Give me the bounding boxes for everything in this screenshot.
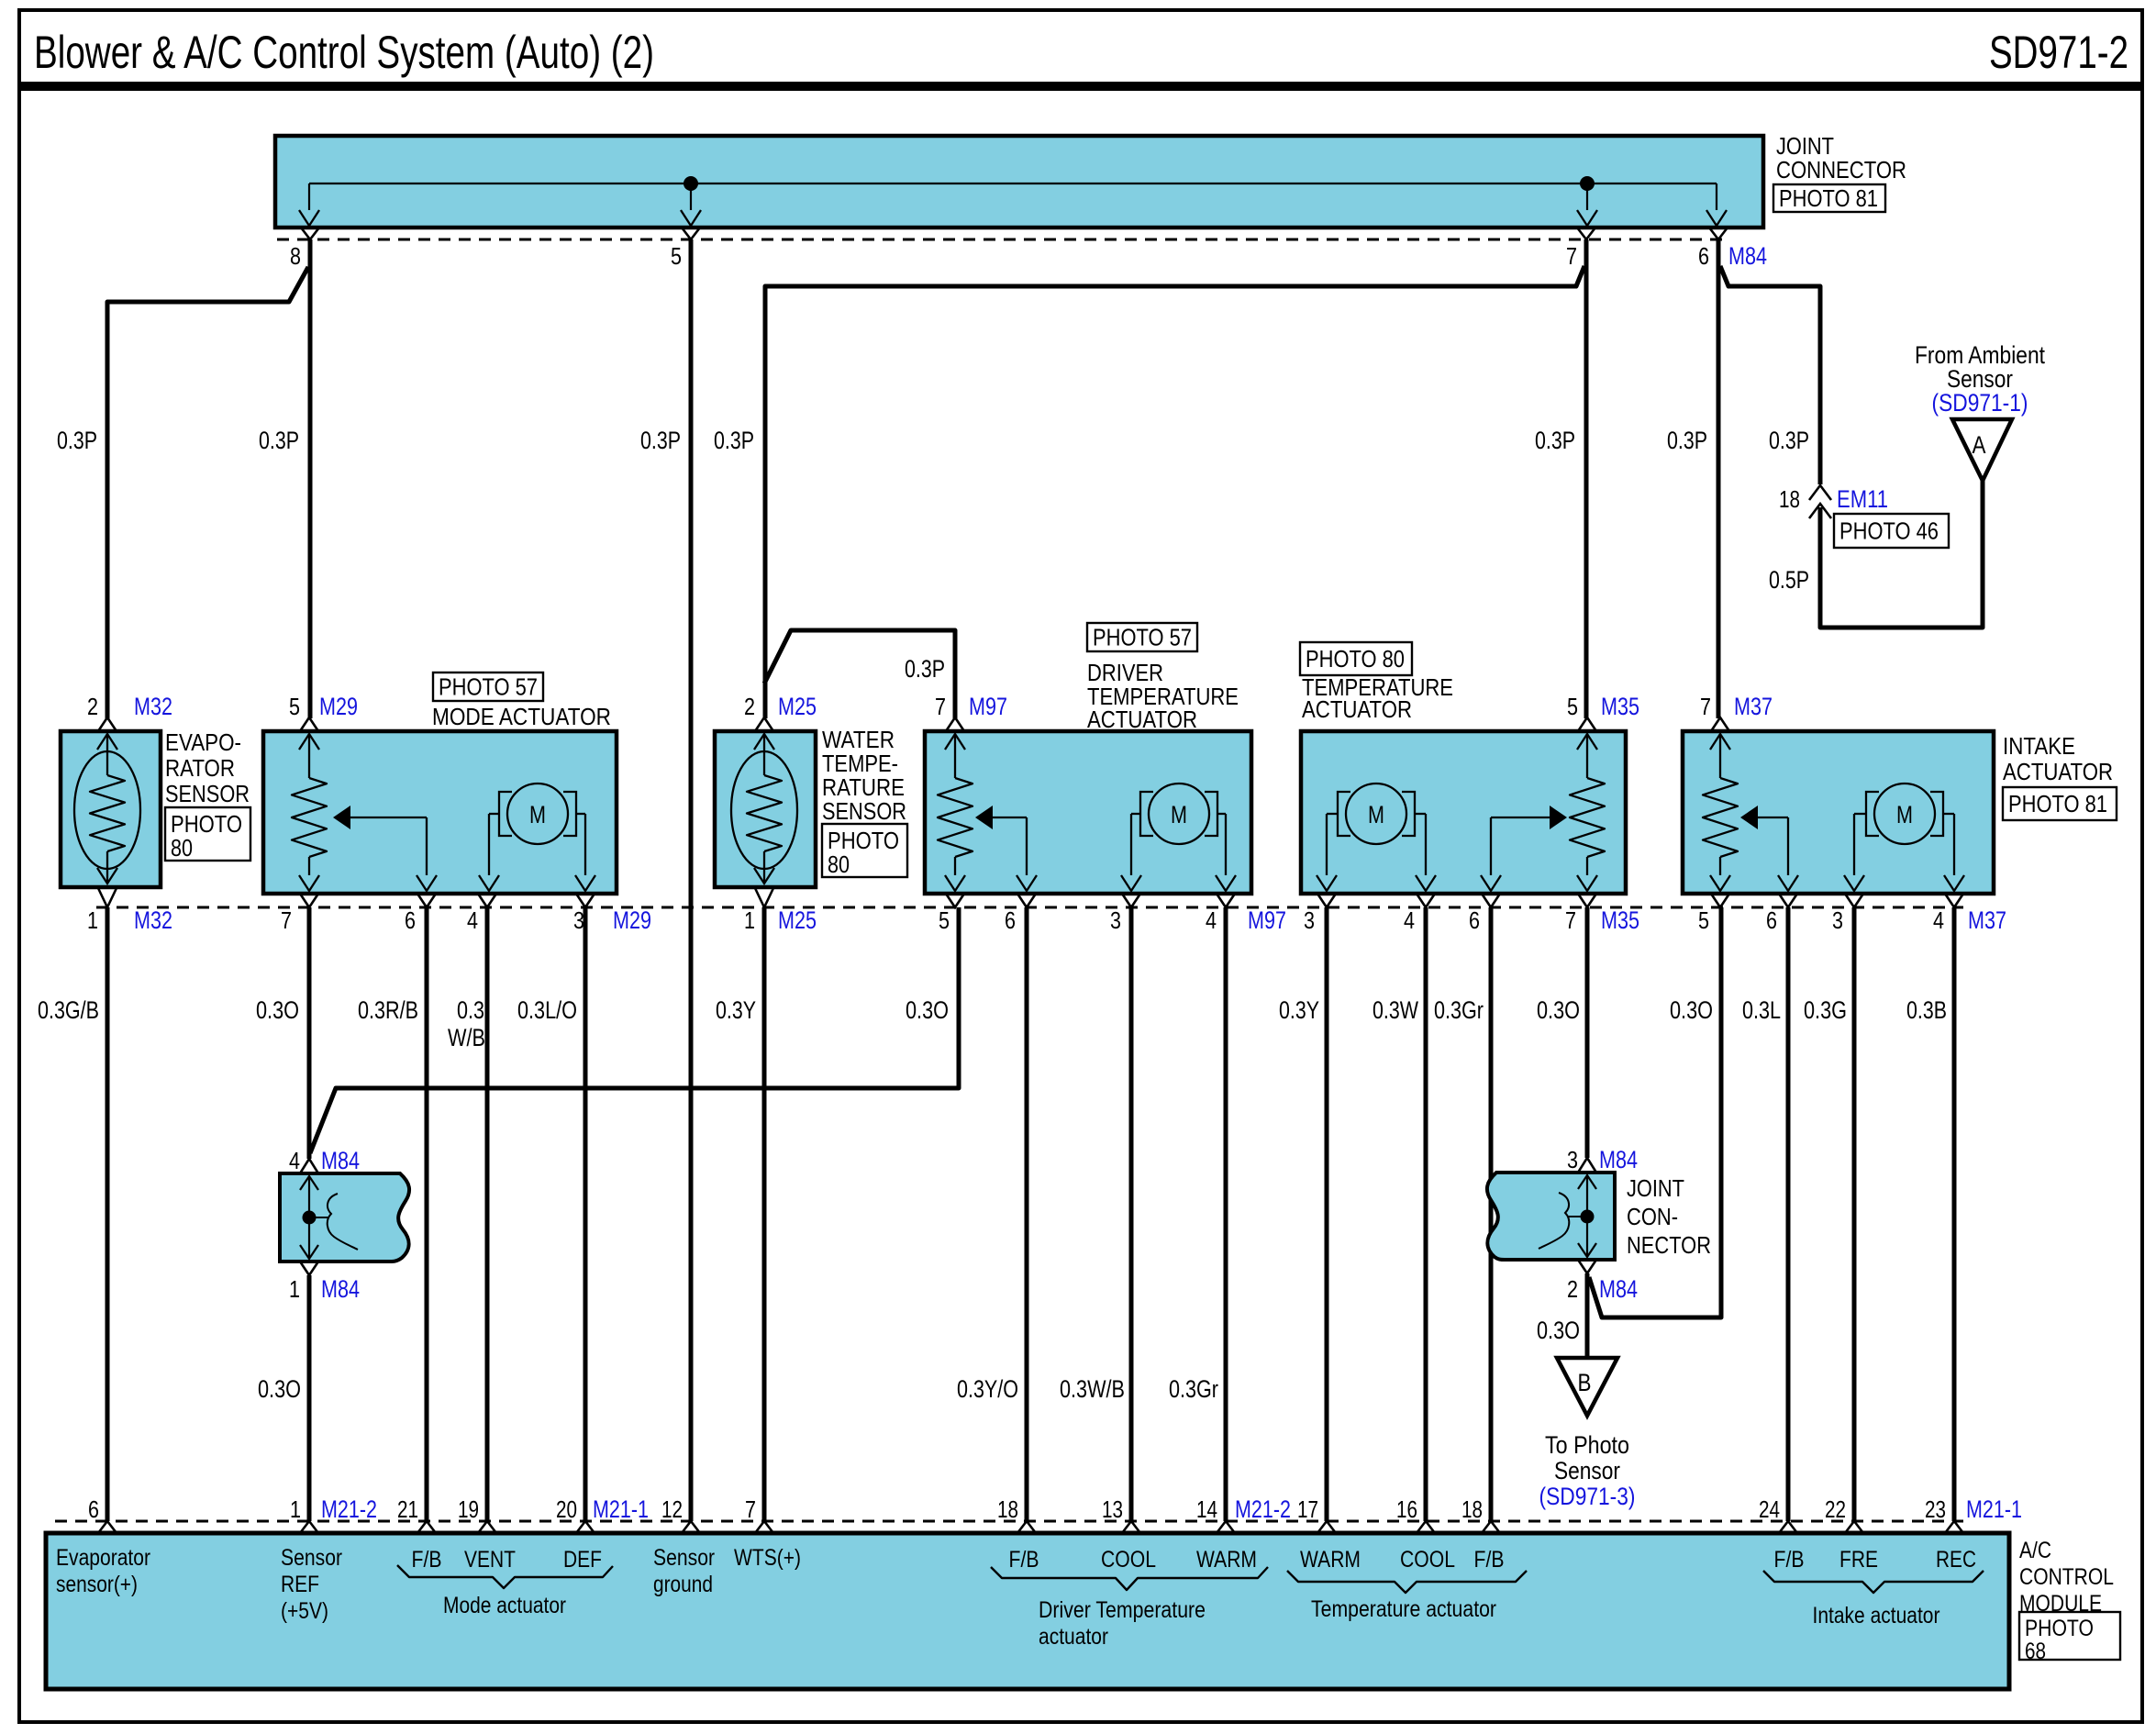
temperature actuator wiper arrow xyxy=(1550,806,1567,829)
module pin 14 chevron at x=1336 xyxy=(1217,1521,1235,1533)
svg-text:0.3G: 0.3G xyxy=(1804,996,1847,1024)
svg-text:M: M xyxy=(1368,801,1384,828)
svg-text:16: 16 xyxy=(1396,1495,1417,1523)
label PHOTO 80 (water temperature sensor) xyxy=(822,824,907,877)
svg-text:6: 6 xyxy=(88,1495,99,1523)
svg-text:0.3P: 0.3P xyxy=(1769,427,1809,454)
svg-text:Sensor: Sensor xyxy=(1554,1457,1620,1484)
svg-text:COOL: COOL xyxy=(1101,1547,1156,1573)
svg-text:5: 5 xyxy=(671,242,682,270)
temperature actuator motor M xyxy=(1346,784,1406,844)
svg-text:M32: M32 xyxy=(134,906,172,934)
svg-text:M29: M29 xyxy=(319,693,358,720)
joint connector M84 (top) box xyxy=(275,136,1763,228)
svg-text:18: 18 xyxy=(997,1495,1018,1523)
svg-text:WARM: WARM xyxy=(1196,1547,1257,1573)
wire 0.3P from pin 6 to intake actuator pin 7 xyxy=(1717,239,1721,718)
svg-text:M32: M32 xyxy=(134,693,172,720)
svg-text:F/B: F/B xyxy=(1474,1547,1505,1573)
driver temperature actuator group brace xyxy=(991,1567,1268,1590)
svg-text:3: 3 xyxy=(1304,906,1315,934)
svg-text:actuator: actuator xyxy=(1039,1624,1108,1650)
svg-text:7: 7 xyxy=(281,906,292,934)
mode actuator bottom pin chevrons 7 6 4 3 xyxy=(300,894,318,907)
wire 0.3O joint connector M84 pin 2 to photo sensor connector B xyxy=(1585,1273,1590,1358)
svg-text:Evaporator: Evaporator xyxy=(56,1545,150,1571)
intake actuator M37 box xyxy=(1683,731,1994,894)
wire 0.3Y water temperature sensor pin 1 to module pin 7 xyxy=(762,907,767,1521)
module pin 7 chevron at x=833 xyxy=(755,1521,773,1533)
svg-text:20: 20 xyxy=(556,1495,577,1523)
svg-text:CON-: CON- xyxy=(1627,1203,1678,1230)
svg-text:14: 14 xyxy=(1196,1495,1217,1523)
wire 0.3O mode actuator pin 7 to joint connector M84 pin 4 xyxy=(307,907,312,1159)
svg-text:ACTUATOR: ACTUATOR xyxy=(1087,706,1197,733)
label PHOTO 81 (intake actuator) xyxy=(2003,787,2117,820)
svg-text:0.3P: 0.3P xyxy=(57,427,97,454)
intake actuator position resistor xyxy=(1710,734,1730,750)
svg-text:0.3: 0.3 xyxy=(457,996,484,1024)
svg-text:0.3O: 0.3O xyxy=(1537,996,1580,1024)
svg-text:1: 1 xyxy=(87,906,98,934)
svg-text:B: B xyxy=(1578,1369,1592,1396)
module pin 20 chevron at x=638 xyxy=(576,1521,595,1533)
pin 6 of joint connector M84 xyxy=(1709,228,1728,239)
wire 0.3Y temperature actuator pin 3 to module pin 17 xyxy=(1325,907,1329,1521)
svg-text:0.3W/B: 0.3W/B xyxy=(1060,1375,1125,1403)
joint connector M84 (left) pin 4 chevron xyxy=(300,1159,318,1173)
svg-text:7: 7 xyxy=(1700,693,1711,720)
svg-text:(SD971-1): (SD971-1) xyxy=(1932,389,2028,417)
wire 0.3Y/O driver temperature actuator pin 6 to module pin 18 xyxy=(1025,907,1029,1521)
svg-text:7: 7 xyxy=(935,693,946,720)
svg-text:SENSOR: SENSOR xyxy=(822,797,906,825)
svg-text:M: M xyxy=(1896,801,1913,828)
svg-text:0.3B: 0.3B xyxy=(1906,996,1947,1024)
svg-text:PHOTO 57: PHOTO 57 xyxy=(439,673,538,701)
svg-text:SENSOR: SENSOR xyxy=(165,780,250,807)
svg-text:18: 18 xyxy=(1461,1495,1483,1523)
wire 0.5P from EM11 to ambient sensor connector A xyxy=(1820,481,1983,628)
svg-text:0.3P: 0.3P xyxy=(905,655,945,683)
label PHOTO 57 (mode actuator) xyxy=(433,672,543,701)
module pin 16 chevron at x=1554 xyxy=(1417,1521,1435,1533)
module pin 23 chevron at x=2130 xyxy=(1945,1521,1963,1533)
wire 0.3Gr driver temperature actuator pin 4 to module pin 14 xyxy=(1224,907,1228,1521)
svg-text:CONNECTOR: CONNECTOR xyxy=(1776,156,1906,183)
svg-text:PHOTO 81: PHOTO 81 xyxy=(2008,790,2107,817)
junction dot on bus at pin 7 xyxy=(1580,176,1595,191)
svg-text:4: 4 xyxy=(467,906,478,934)
svg-text:M37: M37 xyxy=(1968,906,2006,934)
wire 0.3W/B driver temperature actuator pin 3 to module pin 13 xyxy=(1129,907,1134,1521)
svg-text:M29: M29 xyxy=(613,906,651,934)
wire 0.3L intake actuator pin 6 to module pin 24 xyxy=(1786,907,1791,1521)
joint connector internal bus wire xyxy=(309,183,1717,184)
wire 0.3O joint connector M84 pin 2 branch to intake actuator pin 5 xyxy=(1589,907,1721,1317)
svg-text:1: 1 xyxy=(290,1495,301,1523)
intake actuator pin 7 chevron xyxy=(1711,717,1729,731)
svg-text:3: 3 xyxy=(1832,906,1843,934)
temperature actuator M35 box xyxy=(1301,731,1626,894)
svg-text:M35: M35 xyxy=(1601,906,1639,934)
svg-text:M97: M97 xyxy=(1248,906,1286,934)
svg-text:0.3G/B: 0.3G/B xyxy=(38,996,99,1024)
svg-text:6: 6 xyxy=(1469,906,1480,934)
svg-text:M37: M37 xyxy=(1734,693,1773,720)
module dashed connector line xyxy=(55,1520,1963,1523)
svg-text:FRE: FRE xyxy=(1839,1547,1878,1573)
svg-text:RATOR: RATOR xyxy=(165,754,235,782)
module pin 21 chevron at x=465 xyxy=(417,1521,436,1533)
svg-text:Driver Temperature: Driver Temperature xyxy=(1039,1597,1206,1623)
wire 0.3P branch from pin 7 to water temperature sensor pin 2 xyxy=(765,266,1584,718)
intake actuator motor M xyxy=(1874,784,1935,844)
svg-text:Sensor: Sensor xyxy=(281,1545,342,1571)
mode actuator group brace xyxy=(397,1565,613,1588)
svg-text:F/B: F/B xyxy=(1774,1547,1805,1573)
svg-text:ACTUATOR: ACTUATOR xyxy=(1302,695,1412,723)
evaporator sensor thermistor symbol xyxy=(74,751,140,869)
wire 0.3W temperature actuator pin 4 to module pin 16 xyxy=(1424,907,1428,1521)
module pin 17 chevron at x=1446 xyxy=(1317,1521,1336,1533)
svg-text:2: 2 xyxy=(1567,1275,1578,1303)
component row dashed connector line xyxy=(96,906,1963,909)
svg-text:M25: M25 xyxy=(778,906,817,934)
joint connector M84 (left) pin 1 chevron xyxy=(300,1262,318,1275)
svg-text:ground: ground xyxy=(653,1572,713,1597)
wire 0.3R/B mode actuator pin 6 to module pin 21 xyxy=(425,907,429,1521)
svg-text:0.3O: 0.3O xyxy=(256,996,299,1024)
svg-text:M: M xyxy=(1171,801,1187,828)
A/C control module box xyxy=(46,1533,2009,1689)
svg-text:68: 68 xyxy=(2025,1639,2046,1664)
svg-text:0.3P: 0.3P xyxy=(259,427,299,454)
evaporator sensor M32 box xyxy=(61,731,161,887)
joint connector M84 (right) pin 3 chevron xyxy=(1578,1158,1596,1173)
svg-text:M84: M84 xyxy=(321,1275,360,1303)
svg-text:M35: M35 xyxy=(1601,693,1639,720)
off-page connector A - From Ambient Sensor (SD971-1) xyxy=(1952,419,2012,481)
svg-text:0.5P: 0.5P xyxy=(1769,566,1809,594)
svg-text:0.3Y: 0.3Y xyxy=(1279,996,1319,1024)
svg-text:0.3P: 0.3P xyxy=(714,427,754,454)
svg-text:M25: M25 xyxy=(778,693,817,720)
svg-text:0.3P: 0.3P xyxy=(640,427,681,454)
svg-text:INTAKE: INTAKE xyxy=(2003,732,2075,760)
svg-text:6: 6 xyxy=(1766,906,1777,934)
wire 0.3G/B evaporator sensor pin 1 to module pin 6 xyxy=(106,907,110,1521)
svg-text:MODE ACTUATOR: MODE ACTUATOR xyxy=(432,703,611,730)
wire 0.3O joint connector M84 pin 1 to module pin 1 xyxy=(307,1275,312,1521)
module pin 13 chevron at x=1233 xyxy=(1122,1521,1140,1533)
wire 0.3P from pin 7 to temperature actuator pin 5 xyxy=(1584,239,1589,718)
label PHOTO 80 (evaporator sensor) xyxy=(165,807,250,861)
svg-text:5: 5 xyxy=(1567,693,1578,720)
wire 0.3P from water temperature sensor pin 2 to driver temperature actuator pin 7 xyxy=(764,630,955,718)
svg-text:80: 80 xyxy=(171,834,193,861)
svg-text:PHOTO 57: PHOTO 57 xyxy=(1093,624,1192,651)
svg-text:EM11: EM11 xyxy=(1837,485,1888,513)
svg-text:22: 22 xyxy=(1825,1495,1846,1523)
mode actuator motor M xyxy=(507,784,568,844)
svg-text:(SD971-3): (SD971-3) xyxy=(1539,1483,1636,1510)
wire 0.3W/B mode actuator pin 4 to module pin 19 xyxy=(485,907,490,1521)
svg-text:ACTUATOR: ACTUATOR xyxy=(2003,758,2113,785)
svg-text:M84: M84 xyxy=(1599,1146,1638,1173)
temperature actuator bottom pin chevrons 3 4 6 7 xyxy=(1317,894,1336,907)
pin 7 of joint connector M84 xyxy=(1577,228,1595,239)
svg-text:2: 2 xyxy=(744,693,755,720)
mode actuator pin 5 chevron xyxy=(300,717,318,731)
svg-text:0.3R/B: 0.3R/B xyxy=(358,996,418,1024)
in-line connector EM11 pin 18 xyxy=(1809,485,1831,500)
off-page connector B - To Photo Sensor (SD971-3) xyxy=(1557,1358,1617,1416)
svg-text:6: 6 xyxy=(1698,242,1709,270)
svg-text:7: 7 xyxy=(1565,906,1576,934)
driver temperature actuator M97 box xyxy=(925,731,1251,894)
wire 0.3P branch from pin 8 wire to evaporator sensor pin 2 xyxy=(107,267,308,718)
connector dashed line below joint connector M84 xyxy=(277,239,1727,241)
svg-text:REC: REC xyxy=(1936,1547,1976,1573)
module pin 19 chevron at x=531 xyxy=(478,1521,496,1533)
svg-text:Blower & A/C Control System (A: Blower & A/C Control System (Auto) (2) xyxy=(34,27,654,78)
svg-text:0.3Gr: 0.3Gr xyxy=(1434,996,1484,1024)
wire 0.3O temperature actuator pin 7 to joint connector M84 pin 3 xyxy=(1585,907,1590,1158)
svg-text:PHOTO: PHOTO xyxy=(2025,1616,2094,1641)
svg-text:7: 7 xyxy=(1566,242,1577,270)
svg-text:0.3O: 0.3O xyxy=(1537,1317,1580,1344)
svg-text:0.3O: 0.3O xyxy=(258,1375,301,1403)
svg-text:18: 18 xyxy=(1779,485,1800,513)
title separator line xyxy=(19,82,2142,91)
joint connector M84 (left) box xyxy=(280,1173,409,1262)
svg-text:(+5V): (+5V) xyxy=(281,1598,328,1624)
intake actuator bottom pin chevrons 5 6 3 4 xyxy=(1711,894,1729,907)
joint connector M84 (right) pin 2 chevron xyxy=(1578,1260,1596,1273)
svg-text:0.3O: 0.3O xyxy=(906,996,949,1024)
module pin 12 chevron at x=753 xyxy=(682,1521,700,1533)
module pin 1 chevron at x=337 xyxy=(300,1521,318,1533)
svg-text:3: 3 xyxy=(573,906,584,934)
water temperature sensor thermistor symbol xyxy=(731,751,797,869)
svg-text:13: 13 xyxy=(1102,1495,1123,1523)
svg-text:WARM: WARM xyxy=(1300,1547,1361,1573)
wire 0.3P from pin 5 to A/C control module pin 12 xyxy=(689,239,694,1521)
svg-text:M21-1: M21-1 xyxy=(593,1495,649,1523)
svg-text:SD971-2: SD971-2 xyxy=(1989,27,2128,78)
svg-text:VENT: VENT xyxy=(464,1547,516,1573)
svg-text:5: 5 xyxy=(289,693,300,720)
svg-text:M84: M84 xyxy=(1599,1275,1638,1303)
svg-text:sensor(+): sensor(+) xyxy=(56,1572,138,1597)
mode actuator M29 box xyxy=(263,731,617,894)
svg-text:8: 8 xyxy=(290,242,301,270)
wire 0.3G intake actuator pin 3 to module pin 22 xyxy=(1852,907,1857,1521)
svg-text:Intake actuator: Intake actuator xyxy=(1813,1603,1940,1628)
pin 8 of joint connector M84 xyxy=(301,228,319,239)
svg-text:5: 5 xyxy=(939,906,950,934)
pin 5 of joint connector M84 xyxy=(682,228,700,239)
svg-text:0.3P: 0.3P xyxy=(1535,427,1575,454)
water temperature sensor pin 2 chevron xyxy=(755,717,773,731)
wire 0.3L/O mode actuator pin 3 to module pin 20 xyxy=(583,907,588,1521)
joint connector M84 (right) box xyxy=(1487,1173,1615,1260)
mode actuator wiper arrow xyxy=(333,806,350,829)
svg-text:M21-2: M21-2 xyxy=(321,1495,377,1523)
evaporator sensor pin 2 chevron xyxy=(98,717,117,731)
svg-text:WTS(+): WTS(+) xyxy=(734,1545,801,1571)
svg-text:DEF: DEF xyxy=(563,1547,602,1573)
svg-text:23: 23 xyxy=(1925,1495,1946,1523)
svg-text:F/B: F/B xyxy=(412,1547,442,1573)
svg-text:0.3L: 0.3L xyxy=(1742,996,1781,1024)
svg-text:M: M xyxy=(529,801,546,828)
driver temperature actuator bottom pin chevrons 5 6 3 4 xyxy=(946,894,964,907)
svg-text:0.3P: 0.3P xyxy=(1667,427,1707,454)
temperature actuator group brace xyxy=(1287,1571,1527,1593)
svg-text:PHOTO 81: PHOTO 81 xyxy=(1779,184,1878,212)
wire 0.3Gr temperature actuator pin 6 to module pin 18 xyxy=(1489,907,1494,1521)
svg-text:4: 4 xyxy=(1404,906,1415,934)
svg-text:1: 1 xyxy=(744,906,755,934)
svg-text:JOINT: JOINT xyxy=(1627,1174,1684,1202)
svg-text:REF: REF xyxy=(281,1572,319,1597)
svg-text:12: 12 xyxy=(661,1495,683,1523)
svg-text:0.3O: 0.3O xyxy=(1670,996,1713,1024)
label PHOTO 81 (joint connector) xyxy=(1773,184,1885,212)
svg-text:7: 7 xyxy=(745,1495,756,1523)
svg-text:M84: M84 xyxy=(1728,242,1767,270)
wire 0.3B intake actuator pin 4 to module pin 23 xyxy=(1952,907,1957,1521)
driver temperature actuator wiper arrow xyxy=(975,806,993,829)
svg-text:F/B: F/B xyxy=(1009,1547,1039,1573)
svg-text:A/C: A/C xyxy=(2019,1538,2051,1563)
svg-text:4: 4 xyxy=(289,1147,300,1174)
intake actuator wiper arrow xyxy=(1740,806,1758,829)
driver temperature actuator pin 7 chevron xyxy=(946,717,964,731)
label PHOTO 80 (temperature actuator) xyxy=(1300,642,1412,675)
svg-text:0.3Gr: 0.3Gr xyxy=(1169,1375,1218,1403)
label PHOTO 57 (driver temperature actuator) xyxy=(1087,623,1197,651)
svg-text:0.3L/O: 0.3L/O xyxy=(517,996,577,1024)
svg-text:CONTROL: CONTROL xyxy=(2019,1564,2114,1590)
svg-text:24: 24 xyxy=(1759,1495,1780,1523)
svg-text:0.3W: 0.3W xyxy=(1373,996,1418,1024)
temperature actuator pin 5 chevron xyxy=(1578,717,1596,731)
module pin 22 chevron at x=2021 xyxy=(1845,1521,1863,1533)
svg-text:17: 17 xyxy=(1297,1495,1318,1523)
svg-text:PHOTO 80: PHOTO 80 xyxy=(1306,645,1405,672)
svg-text:Temperature actuator: Temperature actuator xyxy=(1311,1596,1496,1622)
svg-text:A: A xyxy=(1973,431,1986,459)
svg-text:2: 2 xyxy=(87,693,98,720)
svg-text:80: 80 xyxy=(828,850,850,878)
svg-text:M97: M97 xyxy=(969,693,1007,720)
svg-text:19: 19 xyxy=(458,1495,479,1523)
svg-text:NECTOR: NECTOR xyxy=(1627,1231,1711,1259)
svg-text:W/B: W/B xyxy=(448,1024,485,1051)
module pin 18 chevron at x=1119 xyxy=(1017,1521,1036,1533)
svg-text:M21-1: M21-1 xyxy=(1966,1495,2022,1523)
svg-text:EVAPO-: EVAPO- xyxy=(165,728,241,756)
wire 0.3P branch from pin 6 to in-line connector EM11 pin 18 xyxy=(1720,266,1820,484)
svg-text:COOL: COOL xyxy=(1400,1547,1455,1573)
svg-text:4: 4 xyxy=(1206,906,1217,934)
svg-text:PHOTO 46: PHOTO 46 xyxy=(1839,517,1939,545)
svg-text:3: 3 xyxy=(1567,1146,1578,1173)
module pin 6 chevron at x=117 xyxy=(98,1521,117,1533)
water temperature sensor M25 box xyxy=(715,731,816,887)
svg-text:5: 5 xyxy=(1698,906,1709,934)
svg-text:21: 21 xyxy=(397,1495,418,1523)
intake actuator group brace xyxy=(1763,1571,1984,1593)
wire 0.3P from pin 8 to mode actuator pin 5 xyxy=(308,239,313,718)
svg-text:M21-2: M21-2 xyxy=(1235,1495,1291,1523)
evaporator sensor pin 1 chevron xyxy=(98,888,117,907)
svg-text:0.3Y: 0.3Y xyxy=(716,996,756,1024)
svg-text:To Photo: To Photo xyxy=(1545,1431,1629,1459)
junction dot on bus at pin 5 xyxy=(683,176,698,191)
temperature actuator position resistor xyxy=(1577,734,1597,750)
driver temperature actuator motor M xyxy=(1149,784,1209,844)
water temperature sensor pin 1 chevron xyxy=(755,888,773,907)
svg-text:M84: M84 xyxy=(321,1147,360,1174)
svg-text:6: 6 xyxy=(1005,906,1016,934)
svg-text:0.3Y/O: 0.3Y/O xyxy=(957,1375,1018,1403)
module pin 18 chevron at x=1625 xyxy=(1482,1521,1500,1533)
svg-text:1: 1 xyxy=(289,1275,300,1303)
label PHOTO 46 (EM11) xyxy=(1834,514,1949,548)
svg-text:4: 4 xyxy=(1933,906,1944,934)
driver temperature actuator position resistor xyxy=(945,734,965,750)
svg-text:3: 3 xyxy=(1110,906,1121,934)
svg-text:Mode actuator: Mode actuator xyxy=(443,1593,566,1618)
module pin 24 chevron at x=1949 xyxy=(1779,1521,1797,1533)
wire 0.3O branch to driver temperature actuator pin 5 xyxy=(310,907,959,1153)
svg-text:6: 6 xyxy=(405,906,416,934)
mode actuator position resistor xyxy=(299,734,319,750)
label PHOTO 68 (A/C control module) xyxy=(2019,1612,2120,1660)
svg-text:Sensor: Sensor xyxy=(653,1545,715,1571)
